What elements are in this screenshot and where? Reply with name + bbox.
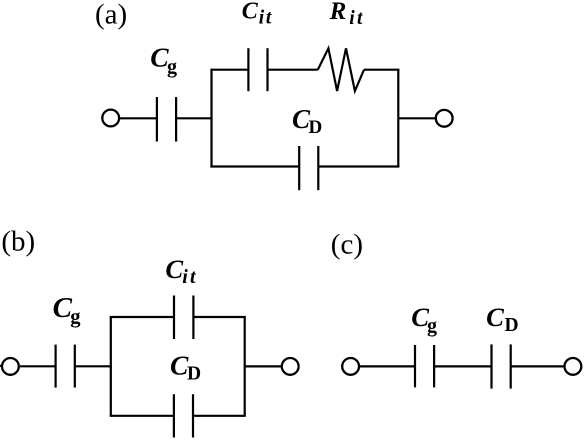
svg-text:C: C <box>165 254 183 284</box>
svg-text:(b): (b) <box>1 225 35 257</box>
svg-text:D: D <box>187 364 201 385</box>
svg-text:(a): (a) <box>95 0 127 31</box>
svg-text:g: g <box>167 56 177 78</box>
svg-text:it: it <box>349 8 365 29</box>
svg-text:g: g <box>70 306 81 328</box>
svg-text:C: C <box>486 302 504 332</box>
svg-text:g: g <box>427 315 437 337</box>
svg-text:D: D <box>505 315 519 336</box>
svg-text:C: C <box>242 0 259 25</box>
svg-text:R: R <box>329 0 347 25</box>
svg-text:(c): (c) <box>331 229 363 261</box>
svg-text:it: it <box>259 8 273 29</box>
svg-text:D: D <box>309 117 323 138</box>
svg-text:it: it <box>182 266 198 288</box>
